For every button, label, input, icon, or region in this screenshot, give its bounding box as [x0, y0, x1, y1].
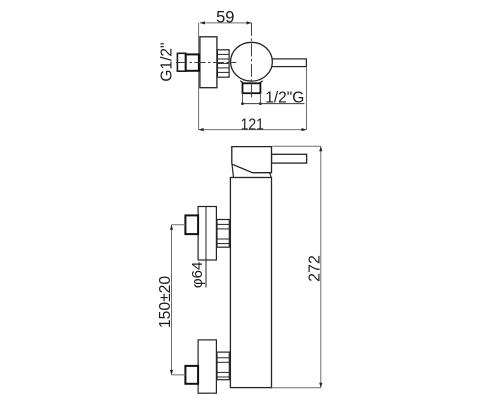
svg-text:121: 121 — [241, 116, 264, 134]
svg-text:φ64: φ64 — [189, 262, 206, 288]
svg-text:1/2"G: 1/2"G — [265, 89, 304, 106]
svg-text:G1/2": G1/2" — [159, 42, 176, 81]
svg-text:272: 272 — [306, 255, 323, 282]
svg-text:150±20: 150±20 — [157, 276, 174, 328]
svg-text:59: 59 — [216, 8, 234, 26]
